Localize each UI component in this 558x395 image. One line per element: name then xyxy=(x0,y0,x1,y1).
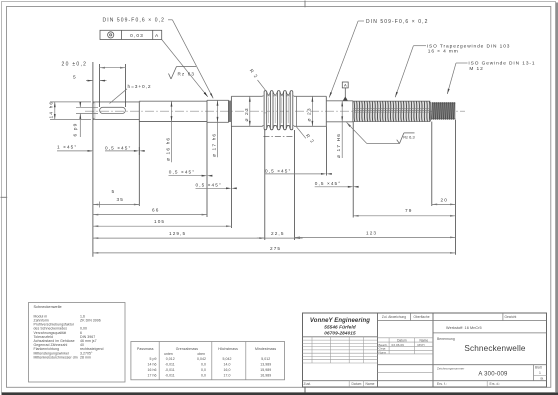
svg-text:03.06.09: 03.06.09 xyxy=(392,343,405,347)
svg-text:16,989: 16,989 xyxy=(260,373,271,377)
svg-text:55546 Fürfeld: 55546 Fürfeld xyxy=(324,324,356,329)
svg-text:0,5 ×45°: 0,5 ×45° xyxy=(196,183,222,188)
svg-text:unten: unten xyxy=(164,352,173,356)
svg-text:DIN 509-F0,6 × 0,2: DIN 509-F0,6 × 0,2 xyxy=(366,19,428,25)
svg-text:Zust.: Zust. xyxy=(304,382,312,386)
worm root dash-dot line xyxy=(263,136,293,138)
svg-text:A 300-009: A 300-009 xyxy=(478,371,508,377)
svg-text:275: 275 xyxy=(270,246,281,251)
svg-text:Datum: Datum xyxy=(397,338,407,342)
dimension 6 p9 keyway width xyxy=(73,102,98,137)
svg-text:14 h6: 14 h6 xyxy=(48,101,54,119)
extension lines xyxy=(93,62,456,257)
dimension 79 xyxy=(353,208,455,217)
svg-text:Ers. f.:: Ers. f.: xyxy=(437,382,447,386)
svg-text:0,5 ×45°: 0,5 ×45° xyxy=(265,168,291,173)
svg-text:Schneckenwelle: Schneckenwelle xyxy=(34,305,62,309)
svg-text:Datum: Datum xyxy=(352,382,362,386)
svg-text:16 × 4 mm: 16 × 4 mm xyxy=(428,49,459,55)
chamfer 0,5 ×45° #4 xyxy=(265,168,332,175)
dimension 35 xyxy=(93,197,139,207)
shaft section Ø14 with keyway xyxy=(93,102,139,120)
dimension 20 xyxy=(432,197,456,205)
svg-text:0,5 ×45°: 0,5 ×45° xyxy=(315,181,341,186)
trapezoidal thread Tr16x4 xyxy=(353,101,431,122)
svg-text:0,0: 0,0 xyxy=(201,368,206,372)
svg-text:Zul. Abweichung: Zul. Abweichung xyxy=(382,315,406,319)
svg-text:0,5 ×45°: 0,5 ×45° xyxy=(105,145,131,150)
svg-text:17,0: 17,0 xyxy=(223,373,230,377)
svg-text:5: 5 xyxy=(112,189,116,195)
title block xyxy=(303,313,547,387)
surface symbol Rz 63 xyxy=(169,67,197,80)
svg-text:oben: oben xyxy=(197,352,205,356)
concentricity tolerance frame 0,03 A xyxy=(100,30,208,97)
svg-text:5,012: 5,012 xyxy=(261,357,270,361)
svg-text:0,03: 0,03 xyxy=(130,33,144,39)
svg-text:⌀ 16 h6: ⌀ 16 h6 xyxy=(166,137,172,161)
dimension Ø17 H6 xyxy=(336,101,343,158)
svg-text:1 ×45°: 1 ×45° xyxy=(57,145,77,150)
shaft section Ø17 H6 xyxy=(326,96,353,126)
note DIN 509-F0,6 × 0,2 right xyxy=(329,19,428,98)
svg-text:0,0: 0,0 xyxy=(201,362,206,366)
svg-text:06709-284015: 06709-284015 xyxy=(324,331,356,336)
dimension 20 ±0,2 keyway xyxy=(62,62,126,69)
undercut DIN 509 groove xyxy=(229,96,232,126)
svg-text:66: 66 xyxy=(152,208,159,213)
svg-text:Grenzabmass: Grenzabmass xyxy=(176,347,199,351)
svg-text:⌀ 17 h6: ⌀ 17 h6 xyxy=(212,133,218,157)
svg-text:20: 20 xyxy=(441,197,448,202)
svg-text:⌀ 23: ⌀ 23 xyxy=(244,107,250,121)
shaft section Ø23 left xyxy=(231,96,262,126)
svg-text:14 h6: 14 h6 xyxy=(147,362,156,366)
svg-text:⌀ 17 H6: ⌀ 17 H6 xyxy=(336,133,342,158)
svg-text:ZK DIN 3996: ZK DIN 3996 xyxy=(80,319,101,323)
svg-text:17 h6: 17 h6 xyxy=(147,373,156,377)
svg-text:-0,011: -0,011 xyxy=(165,368,175,372)
worm data table xyxy=(29,303,126,383)
note ISO Gewinde DIN 13-1 M12 xyxy=(447,61,535,94)
svg-text:123: 123 xyxy=(366,231,377,236)
svg-text:Ers. d.:: Ers. d.: xyxy=(490,382,501,386)
shaft centerline xyxy=(85,110,465,112)
svg-text:Benennung: Benennung xyxy=(437,337,455,341)
svg-text:A: A xyxy=(344,83,347,88)
svg-text:Mittenkreisdurchmesser dm: Mittenkreisdurchmesser dm xyxy=(34,355,78,359)
chamfer 0,5 ×45° #2 xyxy=(169,169,213,176)
chamfer 0,5 ×45° #3 xyxy=(196,183,237,190)
surface symbol Rz 6,3 with leader xyxy=(347,122,415,143)
label R 2 lower xyxy=(296,126,316,144)
svg-text:Schneckenwelle: Schneckenwelle xyxy=(464,344,526,353)
svg-text:Rz 63: Rz 63 xyxy=(178,72,196,77)
svg-text:Name: Name xyxy=(419,338,428,342)
note DIN 509-F0,6 × 0,2 left xyxy=(103,18,214,99)
svg-text:1: 1 xyxy=(539,371,541,375)
svg-text:Norm: Norm xyxy=(379,350,387,354)
svg-text:5 p9: 5 p9 xyxy=(149,357,156,361)
svg-text:h=3+0,2: h=3+0,2 xyxy=(128,84,152,90)
svg-text:ISO Gewinde DIN 13-1: ISO Gewinde DIN 13-1 xyxy=(468,61,535,67)
svg-text:MVH: MVH xyxy=(418,343,425,347)
svg-text:Blatt: Blatt xyxy=(535,366,542,370)
dimension 22,5 xyxy=(257,231,303,239)
dimension 105 xyxy=(93,219,232,227)
svg-text:A: A xyxy=(155,33,159,39)
keyway slot xyxy=(100,107,126,113)
svg-text:M 12: M 12 xyxy=(469,66,483,72)
svg-text:VonneY Engineering: VonneY Engineering xyxy=(310,318,370,324)
svg-text:Name: Name xyxy=(366,382,375,386)
svg-text:Zeichnungsnummer: Zeichnungsnummer xyxy=(437,367,464,371)
svg-text:28 mm: 28 mm xyxy=(80,355,91,359)
svg-text:6 p9: 6 p9 xyxy=(73,123,79,137)
svg-text:0,012: 0,012 xyxy=(166,357,175,361)
dimension 5 keyway position xyxy=(73,74,107,81)
worm thread section xyxy=(262,91,294,130)
shaft section Ø23 right xyxy=(294,96,326,126)
chamfer 0,5 ×45° #5 xyxy=(315,181,359,188)
svg-text:Werkstoff: 16 MnCr5: Werkstoff: 16 MnCr5 xyxy=(446,326,482,330)
svg-text:22,5: 22,5 xyxy=(271,231,285,236)
svg-text:105: 105 xyxy=(154,219,165,224)
dimension Ø23 right xyxy=(306,96,313,126)
svg-text:Oberflache: Oberflache xyxy=(413,315,429,319)
svg-text:Höchstmass: Höchstmass xyxy=(218,347,238,351)
svg-text:0,042: 0,042 xyxy=(197,357,206,361)
svg-text:20 ±0,2: 20 ±0,2 xyxy=(62,62,88,68)
metric thread M12 xyxy=(430,102,455,121)
svg-text:16,0: 16,0 xyxy=(223,368,230,372)
dimension Ø14 h6 xyxy=(48,101,91,120)
svg-text:Bl.: Bl. xyxy=(541,377,545,381)
svg-text:-0,011: -0,011 xyxy=(165,362,175,366)
svg-text:Gewicht: Gewicht xyxy=(505,315,517,319)
svg-text:0,5 ×45°: 0,5 ×45° xyxy=(169,169,195,174)
svg-text:Passmass: Passmass xyxy=(137,347,154,351)
shaft section Ø17 h6 xyxy=(207,100,229,122)
svg-text:DIN 509-F0,6 × 0,2: DIN 509-F0,6 × 0,2 xyxy=(103,18,165,24)
datum A xyxy=(342,82,348,101)
dimension 123 xyxy=(295,231,456,239)
keyway depth label h=3+0,2 xyxy=(110,84,152,103)
svg-text:79: 79 xyxy=(405,208,412,213)
label R 2 upper xyxy=(249,68,267,91)
svg-text:15,989: 15,989 xyxy=(260,368,271,372)
svg-text:-0,011: -0,011 xyxy=(165,373,175,377)
svg-text:13,989: 13,989 xyxy=(260,362,271,366)
dimension Ø23 left xyxy=(244,96,251,126)
svg-text:ISO Trapezgewinde DIN 103: ISO Trapezgewinde DIN 103 xyxy=(427,43,511,49)
dimension Ø16 h6 xyxy=(166,101,173,162)
shaft section Ø16 h6 xyxy=(139,101,207,121)
svg-text:5,042: 5,042 xyxy=(222,357,231,361)
svg-text:5: 5 xyxy=(73,74,77,80)
dimension 275 xyxy=(93,246,456,254)
chamfer 0,5 ×45° #1 xyxy=(105,145,145,155)
svg-text:Rz 6,3: Rz 6,3 xyxy=(403,135,415,140)
svg-text:16 h6: 16 h6 xyxy=(147,368,156,372)
svg-text:Mindestmass: Mindestmass xyxy=(255,347,276,351)
svg-text:0,0: 0,0 xyxy=(201,373,206,377)
dimension 129,5 xyxy=(93,231,265,239)
svg-text:14,0: 14,0 xyxy=(223,362,230,366)
dimension 66 xyxy=(93,208,207,216)
dimension Ø17 h6 xyxy=(212,100,219,157)
dimension 5 (bottom) xyxy=(112,189,116,195)
svg-text:129,5: 129,5 xyxy=(169,231,186,236)
note ISO Trapezgewinde DIN 103 xyxy=(395,43,510,97)
tolerance table xyxy=(131,342,285,380)
svg-text:35: 35 xyxy=(117,197,124,202)
chamfer 1 ×45° xyxy=(57,145,93,152)
svg-text:⌀ 23: ⌀ 23 xyxy=(306,107,312,121)
